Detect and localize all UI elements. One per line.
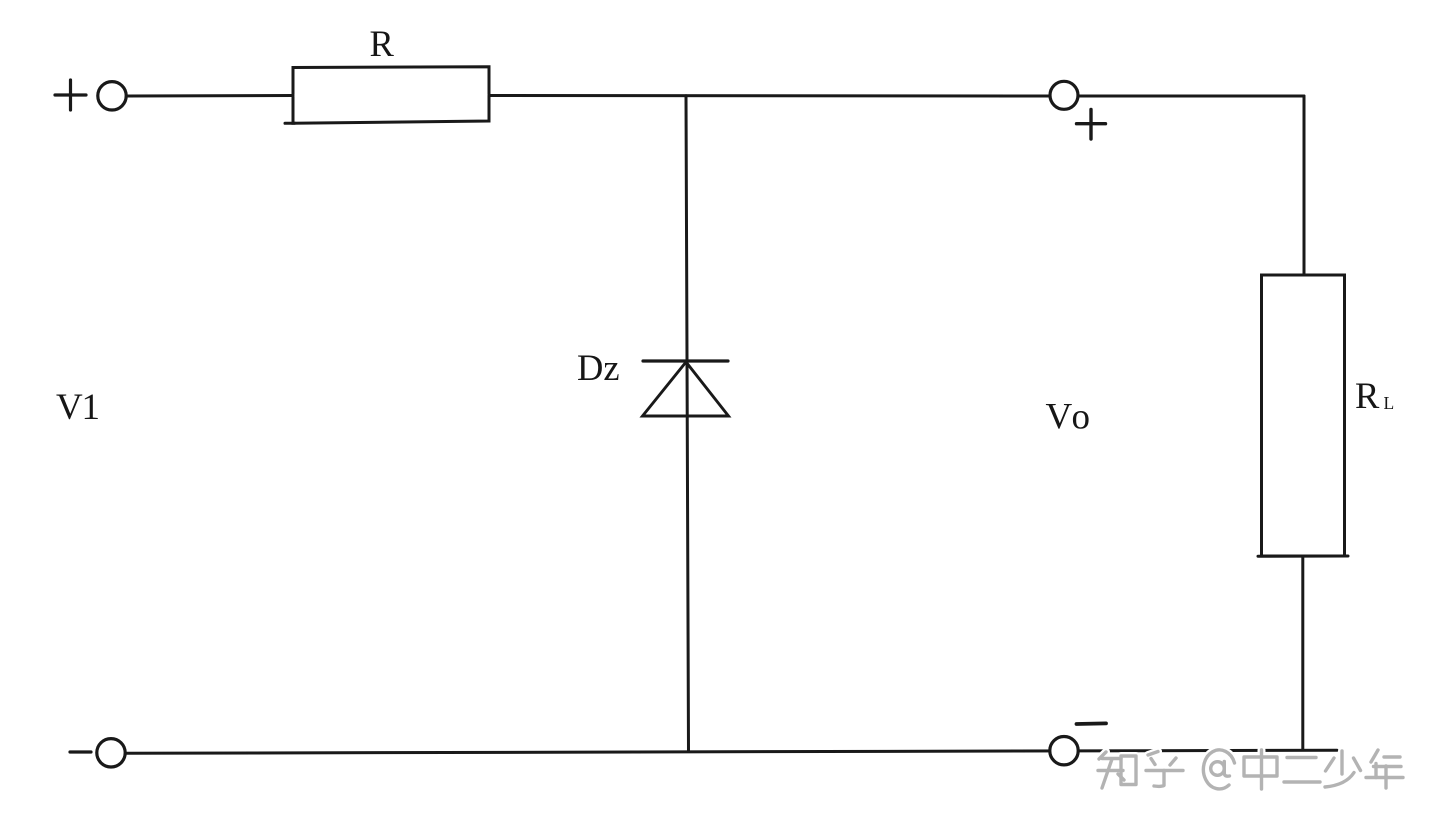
wire: corner down to RL [1303, 96, 1306, 275]
resistor R bottom-left overshoot [285, 122, 295, 125]
wire: top-right terminal to corner [1070, 95, 1304, 98]
terminal circle (top-right, Vo+) [1050, 81, 1078, 109]
plus sign (Vo positive) [1077, 110, 1106, 140]
svg-text:Vo: Vo [1046, 396, 1091, 437]
wire: zener vertical through diode (top rail to bottom rail) [686, 96, 689, 751]
terminal circle (bottom-left) [97, 739, 125, 767]
watermark halo [1098, 750, 1403, 789]
svg-text:L: L [1384, 393, 1395, 413]
watermark strokes [1098, 750, 1403, 789]
svg-text:R: R [370, 23, 395, 64]
resistor R [293, 67, 489, 123]
svg-text:Dz: Dz [577, 347, 620, 388]
svg-text:V1: V1 [56, 387, 100, 428]
terminal circle (top-left) [98, 82, 126, 110]
bottom rail wire [125, 750, 1337, 753]
plus sign (V1 positive terminal) [55, 80, 86, 110]
wire: RL bottom to bottom rail [1301, 556, 1304, 750]
zener diode Dz cathode bar [643, 359, 728, 362]
minus sign (V1 negative terminal) [70, 750, 91, 753]
zener diode Dz triangle [643, 362, 729, 416]
minus sign (Vo negative) [1077, 722, 1107, 726]
wire: top-left terminal to resistor R [120, 94, 293, 98]
wire: resistor R to top-right terminal [489, 94, 1050, 98]
resistor RL [1262, 275, 1345, 556]
svg-text:R: R [1355, 375, 1380, 416]
resistor RL bottom overshoot [1258, 555, 1348, 558]
terminal circle (bottom-right, Vo-) [1050, 737, 1078, 765]
